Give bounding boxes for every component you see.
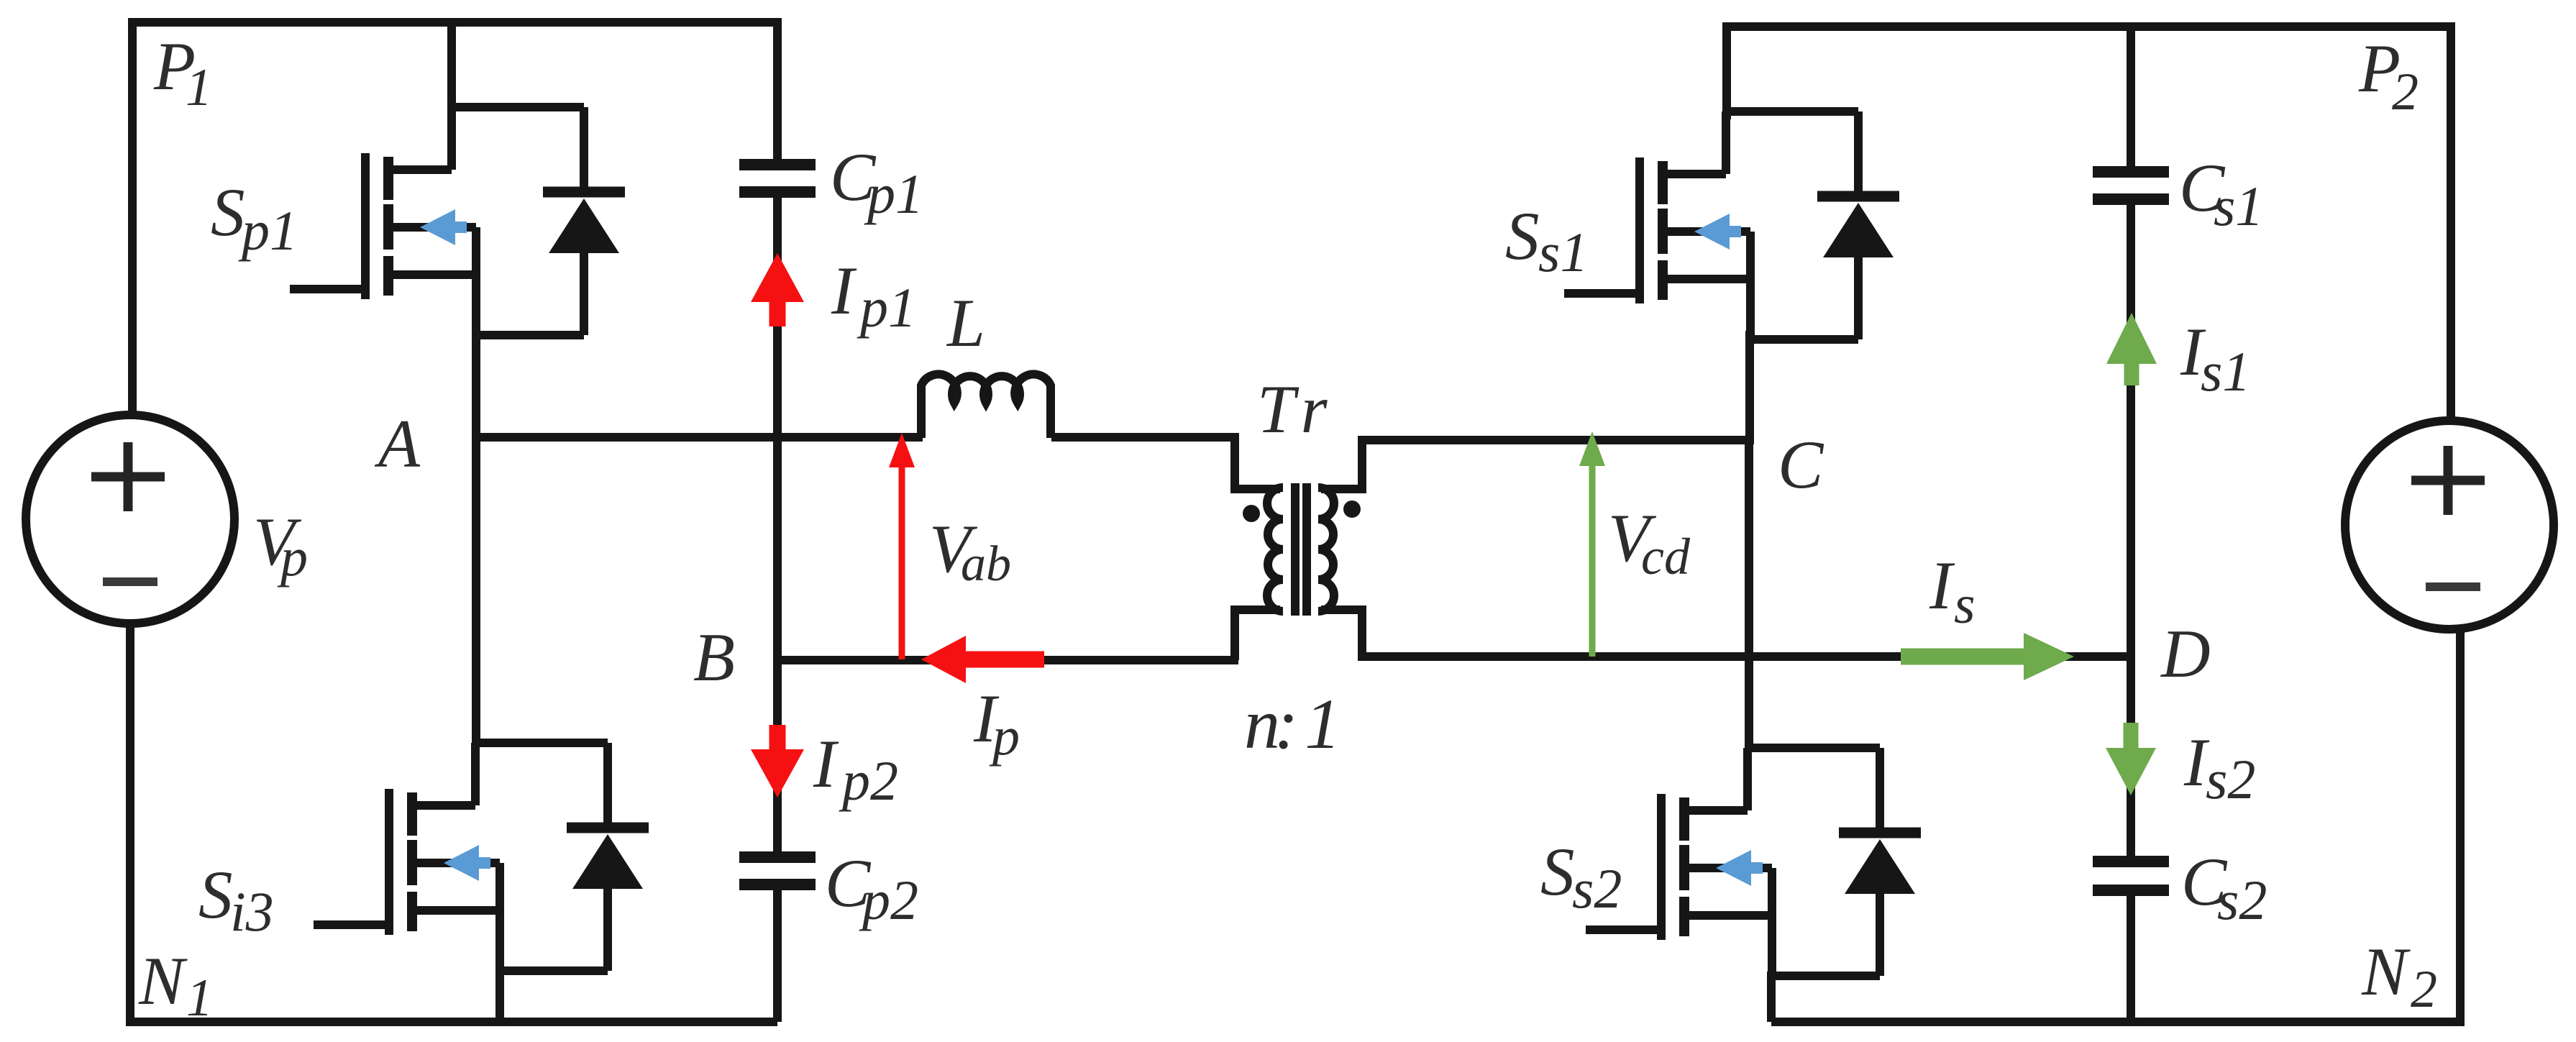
wire: right rail below Vs to N2 corner xyxy=(1771,629,2460,1022)
capacitor Cs1 xyxy=(2093,172,2169,199)
current arrow Is (green, right) xyxy=(1901,649,2027,665)
transformer polarity dot (secondary) xyxy=(1343,501,1361,518)
transformer polarity dot (primary) xyxy=(1243,505,1260,522)
svg-text:p1: p1 xyxy=(238,199,298,262)
svg-text:s1: s1 xyxy=(2214,175,2263,237)
svg-text:S: S xyxy=(198,856,233,933)
wire: Cp2 to bottom rail xyxy=(773,890,782,1022)
current arrow Ip1 (red, up) xyxy=(751,253,804,302)
svg-text:I: I xyxy=(831,252,857,329)
capacitor Cp2 xyxy=(739,857,816,885)
svg-text:n: 1: n: 1 xyxy=(1244,684,1335,764)
svg-text:B: B xyxy=(693,619,735,695)
transformer secondary winding xyxy=(1318,488,1334,611)
svg-text:p2: p2 xyxy=(839,749,898,812)
voltage arrow Vcd (green, up) xyxy=(1589,462,1596,657)
svg-text:N: N xyxy=(2361,933,2411,1010)
wire: node C down to Ss2 drain (crosses node-D wire) xyxy=(1745,440,1753,749)
transistor Sp1 (N-MOSFET) xyxy=(290,107,476,335)
body diode of Sp1 xyxy=(452,107,625,335)
svg-text:I: I xyxy=(1929,547,1955,623)
wire: node A down to Si3 drain xyxy=(472,332,480,746)
svg-text:s2: s2 xyxy=(2206,748,2255,810)
transformer core xyxy=(1291,483,1300,616)
svg-text:2: 2 xyxy=(2411,960,2437,1019)
svg-text:1: 1 xyxy=(186,58,212,117)
wire: inductor to transformer primary top xyxy=(1051,437,1280,489)
svg-text:S: S xyxy=(1540,833,1575,910)
wire: node B horizontal to transformer primary xyxy=(777,656,1238,664)
wire: Cp1 to node B segment (crosses node-A wire) xyxy=(773,198,782,664)
wire: left rail below Vp to N1 corner xyxy=(130,623,777,1022)
wire: Ss2 source to bottom rail xyxy=(1767,972,1776,1022)
wire: transformer secondary top to node C xyxy=(1321,440,1753,489)
wire: Cs1 to node D xyxy=(2127,205,2135,659)
transistor Sp1 drain feed wire xyxy=(447,22,456,111)
svg-text:i3: i3 xyxy=(230,880,274,943)
svg-text:I: I xyxy=(813,726,839,802)
transistor Si3 (N-MOSFET) xyxy=(314,743,500,971)
svg-text:p: p xyxy=(277,527,308,588)
svg-text:p2: p2 xyxy=(859,869,918,931)
svg-text:1: 1 xyxy=(186,969,213,1028)
wire: node D to Cs2 xyxy=(2127,657,2135,856)
wire: node B down to Cp2 xyxy=(773,660,782,851)
svg-text:S: S xyxy=(211,174,245,250)
svg-text:s2: s2 xyxy=(1572,857,1622,920)
svg-text:p: p xyxy=(989,706,1020,767)
capacitor Cp1 xyxy=(739,165,816,192)
svg-text:2: 2 xyxy=(2392,63,2419,122)
wire: Sp1 source to node A xyxy=(472,331,480,442)
current arrow Ip (red, left) xyxy=(964,652,1044,668)
svg-text:p1: p1 xyxy=(864,163,923,225)
body diode of Si3 xyxy=(475,743,649,971)
voltage source Vs xyxy=(2345,421,2554,629)
svg-text:s1: s1 xyxy=(2201,340,2250,403)
svg-text:s: s xyxy=(1954,575,1976,635)
wire: right top rail P2 xyxy=(1727,27,2451,421)
voltage arrow Vab (red, up) xyxy=(899,464,905,659)
inductor L xyxy=(921,374,1051,438)
transformer Tr primary winding xyxy=(1267,488,1283,611)
current arrow Ip2 (red, down) xyxy=(769,725,786,754)
svg-text:C: C xyxy=(1778,426,1824,503)
svg-text:ab: ab xyxy=(961,536,1011,592)
svg-text:p1: p1 xyxy=(857,276,916,339)
svg-text:s1: s1 xyxy=(1538,221,1588,283)
svg-text:L: L xyxy=(946,285,985,361)
wire: node A horizontal to inductor xyxy=(476,433,923,442)
wire: transformer primary bottom to node B wire xyxy=(1235,610,1280,660)
svg-text:Tr: Tr xyxy=(1257,371,1337,447)
wire: Cs1 branch from top rail xyxy=(2127,27,2135,166)
wire: left top rail P1 (with corner down the Cp1 branch) xyxy=(132,22,777,415)
wire: Ss1 source to node C xyxy=(1745,331,1754,444)
current arrow Is2 (green, down) xyxy=(2124,723,2139,751)
svg-text:A: A xyxy=(374,406,421,482)
wire: transformer secondary bottom to node D xyxy=(1321,610,2131,657)
voltage source Vp xyxy=(26,415,234,623)
wire: Cs2 to bottom rail xyxy=(2127,896,2135,1022)
body diode of Ss2 xyxy=(1748,748,1921,976)
svg-text:N: N xyxy=(138,943,188,1019)
current arrow Is1 (green, up) xyxy=(2106,313,2157,364)
capacitor Cs2 xyxy=(2093,862,2169,890)
body diode of Ss1 xyxy=(1726,111,1899,339)
svg-text:D: D xyxy=(2160,616,2211,692)
transistor Ss1 (N-MOSFET) xyxy=(1564,111,1750,339)
wire: Si3 source to bottom rail xyxy=(495,966,504,1022)
svg-text:cd: cd xyxy=(1641,528,1691,585)
svg-text:S: S xyxy=(1505,198,1540,274)
transistor Ss2 (N-MOSFET) xyxy=(1586,748,1772,976)
svg-text:s2: s2 xyxy=(2217,869,2267,931)
